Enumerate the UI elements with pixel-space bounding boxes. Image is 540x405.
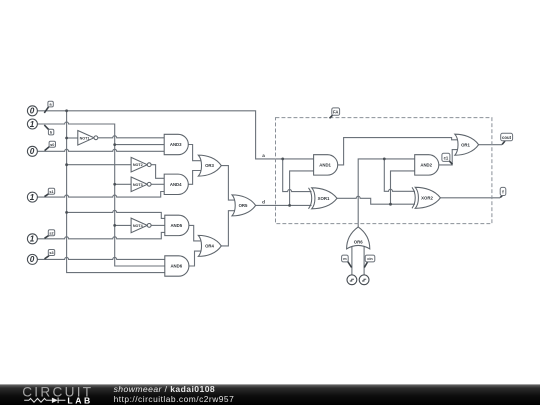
svg-text:0: 0 (30, 107, 35, 116)
junction b/NOT4 (113, 224, 116, 227)
junction s/AND2 (389, 203, 392, 206)
source V2 (359, 275, 369, 285)
wire AND1 output to OR1 top input (338, 138, 458, 165)
flag f (500, 187, 506, 197)
input digits (30, 107, 35, 265)
svg-text:1: 1 (30, 235, 35, 244)
svg-text:a: a (262, 153, 265, 158)
svg-text:m: m (343, 257, 347, 261)
svg-text:1: 1 (30, 120, 35, 129)
wire b to AND3 middle input (115, 144, 165, 146)
wire a to AND5 top input (67, 210, 165, 218)
wire a to NOT2 input (67, 164, 132, 166)
svg-text:AND4: AND4 (170, 182, 182, 187)
wire b to NOT3 input (115, 183, 131, 185)
wire a branch down to XOR1 top input (283, 159, 312, 192)
source V1 glyph (350, 279, 354, 281)
svg-text:AND3: AND3 (170, 142, 182, 147)
junction a bus top (65, 109, 68, 112)
wire net d OR5 output to XOR1 bottom input (256, 204, 312, 206)
flag cin (364, 255, 375, 267)
inverter NOT3 (131, 177, 151, 192)
input node s0 value 0 (27, 146, 37, 156)
svg-text:s1: s1 (49, 190, 53, 194)
svg-text:AND6: AND6 (170, 264, 182, 269)
footer bar (0, 384, 540, 405)
svg-text:LAB: LAB (67, 395, 92, 405)
wire XOR1 output to XOR2 bottom input (337, 196, 415, 204)
wire AND4 output to OR3 bottom input (188, 171, 201, 185)
junction a/NOT1 (65, 137, 68, 140)
flag b (44, 125, 54, 135)
svg-text:1: 1 (30, 193, 35, 202)
flag s2 (45, 230, 55, 239)
svg-text:c1: c1 (444, 155, 449, 160)
and-gate AND4 (164, 174, 188, 194)
svg-text:XOR2: XOR2 (421, 195, 433, 200)
wire OR4 output to OR5 bottom input (221, 211, 235, 246)
svg-text:OR4: OR4 (205, 244, 214, 249)
source V1 (347, 275, 357, 285)
wire XOR2 output to f flag (440, 197, 500, 199)
input node b value 1 (27, 119, 37, 129)
or-gate OR3 (198, 155, 221, 176)
input node s2 value 1 (27, 234, 37, 244)
flag m (342, 255, 352, 267)
svg-text:0: 0 (30, 147, 35, 156)
svg-text:FA: FA (333, 110, 338, 115)
svg-text:s2: s2 (49, 232, 53, 236)
wire d branch up to AND1 bottom input (290, 171, 314, 206)
svg-text:OR6: OR6 (354, 240, 363, 245)
and-gate AND6 (165, 256, 189, 276)
input node s1 value 1 (27, 192, 37, 202)
source V2 glyph (362, 279, 366, 281)
wire OR1 output to cout flag (479, 144, 502, 146)
svg-text:d: d (262, 199, 265, 204)
wire AND5 output to OR4 top input (189, 225, 202, 241)
wire AND6 output to OR4 bottom input (189, 251, 202, 266)
and-gate AND5 (165, 215, 189, 235)
inverter NOT4 (131, 218, 151, 233)
flag cout (501, 133, 513, 144)
wire s2 to AND5 bottom input (38, 232, 165, 238)
wire s0 to AND3 bottom input (38, 149, 165, 151)
wire a to NOT1 input (67, 137, 78, 139)
svg-text:s0: s0 (50, 143, 54, 147)
and-gate AND3 (164, 134, 188, 154)
junction b/AND3 (113, 143, 116, 146)
wire AND2 output to OR1 bottom input (439, 150, 458, 165)
wire s3 to AND6 top input (38, 257, 165, 259)
wire net a vertical bus (67, 111, 165, 273)
or-gate OR6 vertical (347, 227, 370, 249)
wire NOT3 output to AND4 middle input (151, 183, 164, 185)
logo diode triangle (52, 398, 58, 403)
junction d/AND1 in FA (288, 204, 291, 207)
svg-text:AND2: AND2 (420, 163, 432, 168)
wire net b from input (38, 122, 165, 266)
flag FA on dashed box (330, 108, 340, 118)
flag c1 (442, 153, 453, 164)
svg-text:showmeear / kadai0108: showmeear / kadai0108 (114, 384, 216, 394)
wire s branch up to AND2 bottom input (391, 171, 415, 204)
wire NOT1 output to AND3 top input (98, 136, 164, 138)
svg-text:NOT1: NOT1 (80, 136, 90, 140)
dashed box FA (276, 118, 492, 224)
junction a/AND5 (65, 211, 68, 214)
junction cin/XOR2 (383, 158, 386, 161)
junction a/XOR1 in FA (281, 158, 284, 161)
svg-text:NOT3: NOT3 (133, 183, 143, 187)
or-gate OR1 (455, 134, 479, 155)
wire NOT4 output to AND5 middle input (151, 224, 165, 226)
junction dots (65, 109, 392, 226)
svg-text:XOR1: XOR1 (318, 196, 330, 201)
flag s3 (45, 250, 55, 259)
wire net a top run (38, 111, 314, 159)
svg-text:s3: s3 (49, 251, 53, 255)
junction a/NOT2 (65, 163, 68, 166)
flag s1 (45, 188, 55, 196)
wire s1 to AND4 bottom input (38, 192, 165, 198)
svg-text:OR1: OR1 (461, 142, 470, 147)
svg-text:NOT2: NOT2 (133, 163, 143, 167)
wire OR3 output to OR5 top input (221, 166, 235, 201)
or-gate OR5 (232, 195, 256, 216)
FLAGS (44, 101, 512, 267)
flag a (44, 101, 53, 113)
wire OR6 right input to source V2 (363, 246, 365, 275)
svg-text:cin: cin (367, 257, 373, 261)
wire cin vertical from OR6 to AND2 top input (358, 159, 415, 227)
xor-gate XOR1 (309, 188, 338, 209)
svg-text:OR5: OR5 (239, 203, 248, 208)
inverter NOT2 (131, 157, 151, 172)
svg-text:http://circuitlab.com/c2rw957: http://circuitlab.com/c2rw957 (114, 394, 235, 404)
wire cin branch down to XOR2 top input (384, 159, 415, 191)
svg-text:OR3: OR3 (205, 163, 214, 168)
or-gate OR4 (198, 235, 221, 256)
junction b/NOT3 (113, 183, 116, 186)
wire NOT2 output to AND4 top input (151, 165, 164, 179)
inverter NOT1 (78, 131, 98, 146)
gate labels (80, 136, 471, 268)
input node a value 0 (27, 106, 37, 116)
wire AND3 output to OR3 top input (188, 145, 201, 161)
svg-text:cout: cout (502, 135, 512, 140)
flag s0 (45, 141, 56, 150)
xor-gate XOR2 (412, 187, 440, 208)
wire b to NOT4 input (115, 224, 131, 226)
logo resistor and diode (24, 398, 65, 404)
and-gate AND1 (314, 155, 338, 175)
input node s3 value 0 (27, 254, 37, 264)
svg-text:AND5: AND5 (170, 223, 182, 228)
wire OR6 left input to source V1 (351, 246, 353, 275)
svg-text:NOT4: NOT4 (133, 224, 144, 228)
svg-text:0: 0 (30, 255, 35, 264)
and-gate AND2 (415, 155, 439, 175)
svg-text:AND1: AND1 (319, 163, 331, 168)
